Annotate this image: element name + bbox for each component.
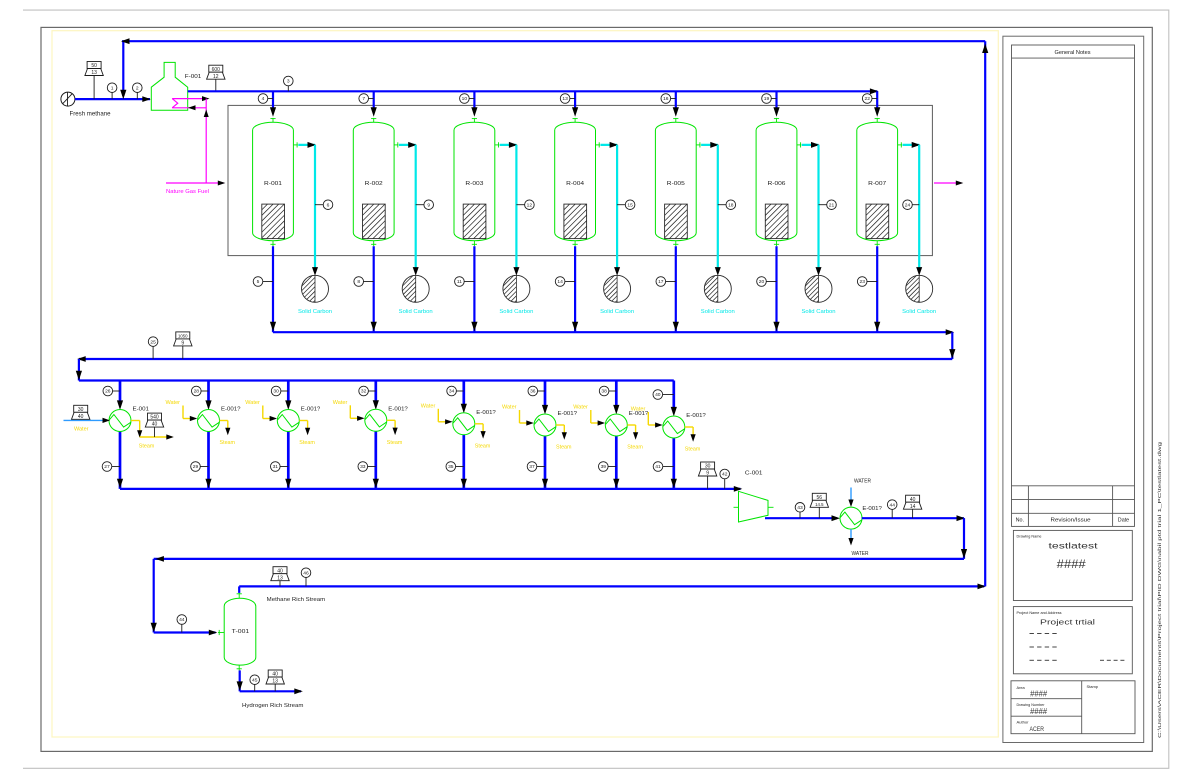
svg-text:24: 24 bbox=[905, 202, 911, 208]
node stream 16 bbox=[671, 98, 676, 100]
wire exchanger bottom header bbox=[120, 488, 741, 490]
wire feed drop to R-001 bbox=[272, 91, 274, 108]
svg-text:41: 41 bbox=[655, 464, 661, 470]
svg-text:Water: Water bbox=[166, 400, 181, 406]
wire exchanger 6 vertical lower bbox=[544, 436, 547, 489]
flag 56/14.5 bbox=[818, 507, 820, 518]
node stream 24 bbox=[912, 204, 919, 206]
furnace F-001 bbox=[151, 62, 187, 110]
svg-text:Steam: Steam bbox=[475, 443, 491, 449]
svg-text:Date: Date bbox=[1118, 518, 1129, 524]
wire feed drop to R-005 bbox=[675, 91, 677, 108]
svg-text:9: 9 bbox=[181, 341, 184, 347]
svg-text:35: 35 bbox=[448, 464, 454, 470]
wire exchanger top header bbox=[79, 379, 674, 381]
svg-text:39: 39 bbox=[601, 464, 607, 470]
wire drop to column inlet bbox=[153, 559, 155, 633]
node stream 31 bbox=[280, 466, 288, 468]
wire exchanger 5 vertical upper bbox=[462, 381, 465, 405]
reactor R-006 bottom nozzle bbox=[776, 241, 778, 247]
svg-text:20: 20 bbox=[759, 279, 765, 285]
svg-text:27: 27 bbox=[104, 464, 110, 470]
svg-text:40: 40 bbox=[655, 392, 661, 398]
reactor R-002 top nozzle bbox=[373, 118, 375, 123]
project name box bbox=[1013, 607, 1132, 674]
flag 40/13 hydrogen bbox=[274, 684, 276, 691]
reactor R-003 top nozzle bbox=[473, 118, 475, 123]
reactor R-005 bbox=[655, 122, 696, 240]
wire reactor R-005 bottom line bbox=[675, 246, 677, 332]
cooler E-001? after compressor bbox=[840, 507, 862, 529]
svg-text:29: 29 bbox=[193, 464, 199, 470]
arrow into furnace bbox=[142, 96, 151, 102]
flag 540/40 bbox=[154, 427, 156, 437]
node stream 8 bbox=[364, 281, 374, 283]
wire exchanger 8 vertical lower bbox=[672, 438, 675, 489]
wire reactor R-001 bottom line bbox=[272, 246, 274, 332]
svg-text:E-001?: E-001? bbox=[221, 407, 241, 413]
svg-text:3: 3 bbox=[287, 79, 290, 85]
heat exchanger E-001? #2 bbox=[198, 410, 220, 432]
svg-text:1050: 1050 bbox=[178, 334, 188, 339]
node stream 44 duplicate bbox=[181, 624, 183, 632]
svg-text:Solid Carbon: Solid Carbon bbox=[499, 309, 533, 315]
svg-text:Revision/Issue: Revision/Issue bbox=[1051, 518, 1091, 524]
arrow into cooler bbox=[832, 515, 841, 521]
arrow bottoms header right end bbox=[946, 329, 955, 335]
node stream 33 bbox=[368, 466, 376, 468]
arrow recycle joins feed bbox=[120, 90, 126, 100]
solid carbon drum R-003 bbox=[503, 275, 530, 302]
wire exchanger 4 steam outlet bbox=[387, 419, 395, 421]
wire exchanger 6 water inlet bbox=[519, 410, 521, 423]
svg-text:6: 6 bbox=[327, 202, 330, 208]
node stream 36 bbox=[538, 390, 545, 392]
wire intermediate header flowing left bbox=[79, 358, 952, 360]
node stream 41 bbox=[663, 466, 674, 468]
arrow intermediate header left end bbox=[77, 356, 86, 362]
svg-text:19: 19 bbox=[764, 96, 770, 102]
svg-text:Solid Carbon: Solid Carbon bbox=[399, 309, 433, 315]
wire cyan carbon line R-003 bbox=[500, 144, 517, 146]
wire fuel line right of reactor box bbox=[934, 182, 962, 184]
flag 50/13 bbox=[93, 76, 95, 100]
wire exchanger 2 vertical lower bbox=[207, 431, 210, 489]
reactor R-006 catalyst bed hatch bbox=[765, 204, 788, 239]
wire exchanger 3 water inlet bbox=[262, 406, 264, 419]
flag 40/14 bbox=[912, 509, 914, 518]
svg-text:4: 4 bbox=[262, 96, 265, 102]
node stream 43 bbox=[799, 512, 801, 518]
svg-text:Steam: Steam bbox=[387, 440, 403, 446]
node stream 23 bbox=[867, 281, 877, 283]
heat exchanger E-001? #7 bbox=[605, 414, 627, 436]
node stream 32 bbox=[368, 390, 375, 392]
node stream 38 bbox=[609, 390, 616, 392]
wire reactor R-004 bottom line bbox=[574, 246, 576, 332]
node stream 28 bbox=[201, 390, 208, 392]
wire down to transfer line bbox=[963, 518, 965, 559]
arrow top recycle pointing left bbox=[121, 38, 130, 44]
node stream 20 bbox=[766, 281, 776, 283]
wire feed drop to R-003 bbox=[473, 91, 475, 108]
node stream 25 bbox=[152, 346, 154, 359]
svg-text:23: 23 bbox=[859, 279, 865, 285]
reactor R-002 bottom nozzle bbox=[373, 241, 375, 247]
drawing name box bbox=[1013, 530, 1132, 600]
column T-001 inlet nozzle bbox=[218, 632, 224, 634]
svg-text:T-001: T-001 bbox=[232, 629, 250, 635]
svg-text:44: 44 bbox=[179, 617, 185, 623]
svg-text:13: 13 bbox=[91, 70, 97, 76]
svg-text:14: 14 bbox=[557, 279, 563, 285]
node stream 39 bbox=[608, 466, 616, 468]
fresh methane source symbol bbox=[61, 92, 75, 106]
svg-text:42: 42 bbox=[722, 472, 728, 478]
project address dash row 2 bbox=[1030, 646, 1034, 648]
node stream 9 bbox=[416, 204, 424, 206]
svg-text:15: 15 bbox=[627, 202, 633, 208]
wire top recycle line bbox=[122, 40, 985, 42]
wire burner return magenta bbox=[172, 107, 206, 109]
svg-text:Water: Water bbox=[333, 400, 348, 406]
flag 30/9 bbox=[707, 476, 709, 489]
node stream 21 bbox=[819, 204, 827, 206]
wire left drop to exchanger header bbox=[78, 359, 80, 381]
svg-text:540: 540 bbox=[150, 415, 159, 421]
drawing number cell bbox=[1011, 715, 1082, 717]
wire exchanger 2 vertical upper bbox=[207, 381, 210, 402]
node stream 35 bbox=[456, 466, 464, 468]
arrow methane stream into riser bbox=[978, 584, 987, 590]
svg-text:Water: Water bbox=[74, 426, 89, 432]
revision table column dividers bbox=[1027, 486, 1029, 527]
svg-text:8: 8 bbox=[357, 279, 360, 285]
svg-text:####: #### bbox=[1030, 707, 1048, 716]
node stream 10 bbox=[469, 98, 474, 100]
node stream 18 bbox=[718, 204, 726, 206]
arrow fuel riser up bbox=[204, 110, 209, 118]
wire feed drop to R-004 bbox=[574, 91, 576, 108]
svg-text:10: 10 bbox=[462, 96, 468, 102]
svg-text:R-002: R-002 bbox=[365, 181, 383, 187]
svg-text:Water: Water bbox=[631, 407, 646, 413]
reactor R-006 top nozzle bbox=[776, 118, 778, 123]
solid carbon drum R-004 bbox=[604, 275, 631, 302]
wire compressor discharge bbox=[765, 517, 837, 519]
reactor R-003 side nozzle bbox=[495, 144, 499, 146]
svg-text:30: 30 bbox=[273, 389, 279, 395]
wire E-001 cooling water inlet bbox=[64, 419, 107, 421]
wire feed drop to R-007 bbox=[876, 91, 878, 108]
svg-text:E-001?: E-001? bbox=[558, 411, 578, 417]
heat exchanger E-001 #1 bbox=[109, 410, 131, 432]
svg-text:E-001: E-001 bbox=[133, 407, 150, 413]
svg-text:C-001: C-001 bbox=[745, 471, 763, 477]
arrow hydrogen stream end bbox=[294, 688, 303, 694]
wire cyan carbon line R-002 bbox=[399, 144, 416, 146]
svg-text:Area: Area bbox=[1017, 685, 1026, 690]
svg-text:Water: Water bbox=[573, 405, 588, 411]
svg-text:Fresh methane: Fresh methane bbox=[70, 112, 112, 118]
wire exchanger 5 water inlet bbox=[437, 409, 439, 422]
svg-text:9: 9 bbox=[427, 202, 430, 208]
svg-text:Solid Carbon: Solid Carbon bbox=[600, 309, 634, 315]
wire feed drop to R-006 bbox=[775, 91, 777, 108]
svg-text:Author: Author bbox=[1017, 719, 1030, 724]
svg-text:####: #### bbox=[1057, 559, 1087, 571]
reactor R-001 bottom nozzle bbox=[272, 241, 274, 247]
svg-text:36: 36 bbox=[530, 389, 536, 395]
reactor R-005 catalyst bed hatch bbox=[665, 204, 688, 239]
reactor R-002 bbox=[353, 122, 394, 240]
wire feed drop to R-002 bbox=[373, 91, 375, 108]
general notes header line bbox=[1012, 57, 1135, 59]
wire reactor R-006 bottom line bbox=[775, 246, 777, 332]
wire cyan carbon line R-004 bbox=[600, 144, 617, 146]
svg-text:7: 7 bbox=[362, 96, 365, 102]
node stream 14 bbox=[565, 281, 575, 283]
svg-text:32: 32 bbox=[361, 389, 367, 395]
reactor R-004 top nozzle bbox=[574, 118, 576, 123]
wire burner outlet magenta bbox=[172, 98, 207, 100]
wire cooler water inlet bbox=[850, 488, 852, 502]
wire transfer line to column bbox=[154, 558, 964, 560]
svg-text:40: 40 bbox=[277, 568, 283, 574]
wire main reactor feed header bbox=[188, 90, 878, 92]
svg-text:38: 38 bbox=[601, 389, 607, 395]
reactor R-001 top nozzle bbox=[272, 118, 274, 123]
svg-text:R-003: R-003 bbox=[465, 181, 483, 187]
node stream 19 bbox=[771, 98, 776, 100]
svg-text:Nature Gas Fuel: Nature Gas Fuel bbox=[166, 189, 209, 195]
reactor R-005 bottom nozzle bbox=[675, 241, 677, 247]
wire reactor bottoms header bbox=[273, 331, 952, 333]
svg-text:E-001?: E-001? bbox=[686, 413, 706, 419]
wire reactor R-007 bottom line bbox=[876, 246, 878, 332]
heat exchanger E-001? #8 bbox=[663, 416, 685, 438]
svg-text:Project Name and Address: Project Name and Address bbox=[1017, 610, 1062, 615]
svg-text:30: 30 bbox=[705, 464, 711, 470]
wire reactor R-002 bottom line bbox=[373, 246, 375, 332]
svg-text:Hydrogen Rich Stream: Hydrogen Rich Stream bbox=[242, 703, 304, 709]
svg-text:17: 17 bbox=[658, 279, 664, 285]
reactor R-002 side nozzle bbox=[394, 144, 398, 146]
reactor R-006 side nozzle bbox=[797, 144, 801, 146]
reactor R-007 side nozzle bbox=[898, 144, 902, 146]
arrow fuel into reactor box bbox=[218, 181, 226, 186]
reactor enclosure box bbox=[228, 105, 932, 255]
wire recycle downcomer bbox=[122, 41, 124, 96]
svg-text:45: 45 bbox=[252, 677, 258, 683]
column T-001 top nozzle bbox=[238, 593, 240, 599]
wire nature gas fuel line bbox=[166, 182, 224, 184]
reactor R-005 top nozzle bbox=[675, 118, 677, 123]
svg-text:31: 31 bbox=[273, 464, 279, 470]
svg-text:No.: No. bbox=[1016, 518, 1024, 524]
svg-text:5: 5 bbox=[257, 279, 260, 285]
svg-text:Solid Carbon: Solid Carbon bbox=[802, 309, 836, 315]
wire column inlet line bbox=[154, 631, 216, 633]
wire exchanger 7 vertical upper bbox=[615, 381, 618, 407]
svg-text:40: 40 bbox=[78, 414, 84, 420]
node stream 40 bbox=[663, 394, 674, 396]
svg-text:E-001?: E-001? bbox=[862, 506, 882, 512]
node stream 30 bbox=[281, 390, 288, 392]
heat exchanger E-001? #4 bbox=[365, 409, 387, 431]
arrow recycle riser top bbox=[982, 44, 988, 54]
project address dash row 3 bbox=[1030, 659, 1034, 661]
svg-text:12: 12 bbox=[527, 202, 533, 208]
wire exchanger 7 water inlet bbox=[590, 410, 592, 423]
svg-text:13: 13 bbox=[562, 96, 568, 102]
svg-text:R-005: R-005 bbox=[667, 181, 685, 187]
svg-text:56: 56 bbox=[817, 495, 823, 501]
reactor R-003 catalyst bed hatch bbox=[463, 204, 486, 239]
compressor C-001 bbox=[739, 491, 769, 522]
svg-text:9: 9 bbox=[706, 471, 709, 477]
svg-text:13: 13 bbox=[272, 679, 278, 685]
wire recycle riser bbox=[984, 41, 986, 586]
svg-text:E-001?: E-001? bbox=[301, 407, 321, 413]
wire cyan carbon line R-006 bbox=[802, 144, 819, 146]
svg-text:50: 50 bbox=[91, 63, 97, 69]
wire hydrogen rich stream vertical bbox=[239, 670, 241, 691]
svg-text:2: 2 bbox=[136, 85, 139, 91]
svg-text:E-001?: E-001? bbox=[388, 406, 408, 412]
svg-text:R-006: R-006 bbox=[768, 181, 786, 187]
heat exchanger E-001? #3 bbox=[277, 410, 299, 432]
arrow before corner right bbox=[957, 515, 966, 521]
svg-text:44: 44 bbox=[889, 502, 895, 508]
reactor R-007 catalyst bed hatch bbox=[866, 204, 889, 239]
pale yellow inner frame bbox=[52, 31, 998, 737]
svg-text:25: 25 bbox=[150, 339, 156, 345]
svg-text:Steam: Steam bbox=[220, 440, 236, 446]
reactor R-004 bottom nozzle bbox=[574, 241, 576, 247]
wire exchanger 8 vertical upper bbox=[672, 381, 675, 409]
reactor R-007 bbox=[857, 122, 898, 240]
reactor R-003 bbox=[454, 122, 495, 240]
svg-text:testlatest: testlatest bbox=[1049, 542, 1099, 551]
svg-text:28: 28 bbox=[194, 389, 200, 395]
svg-text:11: 11 bbox=[457, 279, 462, 285]
reactor R-006 bbox=[756, 122, 797, 240]
arrow into column T-001 bbox=[209, 630, 218, 636]
node stream 26 bbox=[113, 390, 120, 392]
wire methane rich stream bbox=[238, 586, 240, 593]
wire exchanger 4 vertical lower bbox=[374, 431, 377, 489]
node stream 44 bbox=[891, 509, 893, 518]
wire exchanger 3 steam outlet bbox=[299, 420, 307, 422]
wire E-001 steam outlet bbox=[131, 420, 140, 422]
heat exchanger E-001? #6 bbox=[534, 414, 556, 436]
svg-text:F-001: F-001 bbox=[185, 74, 202, 80]
node stream 6 bbox=[315, 204, 323, 206]
arrow fuel exit right bbox=[956, 181, 964, 186]
svg-text:Solid Carbon: Solid Carbon bbox=[902, 309, 936, 315]
svg-text:13: 13 bbox=[277, 575, 283, 581]
flag 40/13 methane bbox=[279, 581, 281, 587]
stamp cell divider bbox=[1081, 681, 1083, 734]
svg-text:18: 18 bbox=[728, 202, 734, 208]
svg-text:General Notes: General Notes bbox=[1055, 50, 1091, 56]
node stream 12 bbox=[516, 204, 524, 206]
svg-text:34: 34 bbox=[449, 389, 455, 395]
project address dash row 1 bbox=[1030, 633, 1034, 635]
arrow header end right bbox=[870, 88, 879, 94]
svg-text:40: 40 bbox=[152, 422, 158, 428]
reactor R-001 catalyst bed hatch bbox=[262, 204, 285, 239]
node stream 22 bbox=[872, 98, 877, 100]
svg-text:33: 33 bbox=[360, 464, 366, 470]
wire fresh feed line bbox=[75, 98, 150, 100]
svg-text:WATER: WATER bbox=[854, 478, 871, 484]
wire exchanger 6 vertical upper bbox=[544, 381, 547, 407]
node stream 1 bbox=[111, 93, 113, 100]
node stream 27 bbox=[112, 466, 120, 468]
node stream 17 bbox=[666, 281, 676, 283]
node stream 42 bbox=[724, 479, 726, 489]
svg-text:Steam: Steam bbox=[627, 445, 643, 451]
solid carbon drum R-001 bbox=[302, 275, 329, 302]
wire cooler water outlet bbox=[850, 529, 852, 540]
furnace burner zigzag bbox=[172, 99, 178, 108]
reactor R-007 top nozzle bbox=[876, 118, 878, 123]
wire exchanger 5 vertical lower bbox=[462, 435, 465, 489]
svg-text:26: 26 bbox=[105, 389, 111, 395]
svg-text:Water: Water bbox=[421, 403, 436, 409]
arrow bottom header into compressor bbox=[734, 486, 743, 492]
svg-text:37: 37 bbox=[529, 464, 535, 470]
solid carbon drum R-005 bbox=[704, 275, 731, 302]
arrow transfer line left end bbox=[155, 556, 164, 562]
svg-text:Stamp: Stamp bbox=[1087, 684, 1099, 689]
svg-text:16: 16 bbox=[663, 96, 669, 102]
wire exchanger 3 vertical lower bbox=[287, 431, 290, 489]
area cell bbox=[1011, 698, 1082, 700]
node stream 3 bbox=[287, 86, 289, 92]
svg-text:14.5: 14.5 bbox=[815, 502, 824, 507]
svg-text:C:\Users\ACER\Documents\Projec: C:\Users\ACER\Documents\Project trial\PI… bbox=[1157, 441, 1162, 738]
reactor R-004 bbox=[555, 122, 596, 240]
solid carbon drum R-002 bbox=[402, 275, 429, 302]
node stream 29 bbox=[200, 466, 208, 468]
svg-text:R-001: R-001 bbox=[264, 181, 282, 187]
node stream 46 bbox=[305, 578, 307, 587]
svg-text:21: 21 bbox=[829, 202, 835, 208]
wire exchanger 4 vertical upper bbox=[374, 381, 377, 402]
solid carbon drum R-006 bbox=[805, 275, 832, 302]
node stream 37 bbox=[537, 466, 545, 468]
svg-text:600: 600 bbox=[212, 67, 221, 73]
reactor R-005 side nozzle bbox=[696, 144, 700, 146]
svg-text:Methane Rich Stream: Methane Rich Stream bbox=[267, 597, 326, 603]
solid carbon drum R-007 bbox=[906, 275, 933, 302]
wire reactor R-003 bottom line bbox=[473, 246, 475, 332]
svg-text:1: 1 bbox=[111, 85, 114, 91]
svg-text:14: 14 bbox=[910, 504, 916, 510]
svg-text:####: #### bbox=[1030, 690, 1048, 699]
svg-text:Steam: Steam bbox=[556, 445, 572, 451]
reactor R-004 side nozzle bbox=[596, 144, 600, 146]
node stream 11 bbox=[464, 281, 474, 283]
svg-text:Solid Carbon: Solid Carbon bbox=[701, 309, 735, 315]
column T-001 bbox=[224, 598, 256, 665]
node stream 2 bbox=[136, 93, 138, 100]
project address dash row right bbox=[1100, 659, 1104, 661]
wire exchanger 8 water inlet bbox=[647, 412, 649, 425]
